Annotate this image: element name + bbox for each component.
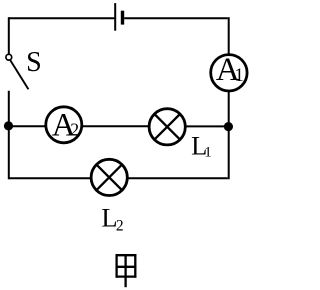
battery B1 [115,3,122,31]
wire right vertical upper (corner to ammeter A1) [228,17,230,54]
lamp L1 [149,109,185,145]
svg-text:1: 1 [235,66,244,86]
lamp L2 [91,159,127,195]
wire top-right (battery to right corner) [124,17,228,19]
svg-text:1: 1 [204,145,212,161]
wire left vertical lower (switch contact to bottom corner) [8,91,10,180]
switch S [6,54,29,89]
node left junction [4,121,13,130]
label L2 [101,202,123,234]
svg-text:2: 2 [116,217,124,234]
node right junction [224,122,233,131]
wire right vertical lower (A1 to bottom corner) [228,92,230,180]
wire bottom (L2 to right corner) [127,177,228,179]
wire middle (left junction to ammeter A2) [9,125,46,127]
wire middle (L1 to right junction) [185,125,229,127]
label S [26,47,42,78]
label 甲 (drawn strokes, CJK character) [116,254,137,287]
label L1 [191,131,212,161]
svg-text:2: 2 [70,119,79,139]
wire bottom (left corner to lamp L2) [9,177,92,179]
ammeter A2 [46,107,82,144]
wire top-left (left corner to battery) [9,17,115,19]
wire left vertical upper (corner to switch pivot) [8,17,10,54]
ammeter A1 [211,52,247,91]
wire middle (A2 to lamp L1) [82,125,150,127]
svg-text:S: S [26,47,42,78]
